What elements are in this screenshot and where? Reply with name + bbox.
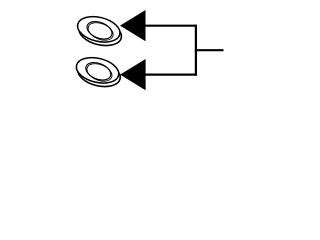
wire: vertical bus [195, 25, 197, 76]
toroid core T1 (top washer) [75, 13, 124, 50]
arrow A2 (bottom, pointing left at T2) [120, 59, 146, 90]
wire: output tap to the right [195, 49, 224, 51]
toroid core T2 (bottom washer) [74, 54, 123, 91]
wire: top arrow to vertical bus [145, 25, 198, 27]
arrow A1 (top, pointing left at T1) [120, 10, 146, 41]
wire: bottom arrow to vertical bus [145, 73, 198, 75]
